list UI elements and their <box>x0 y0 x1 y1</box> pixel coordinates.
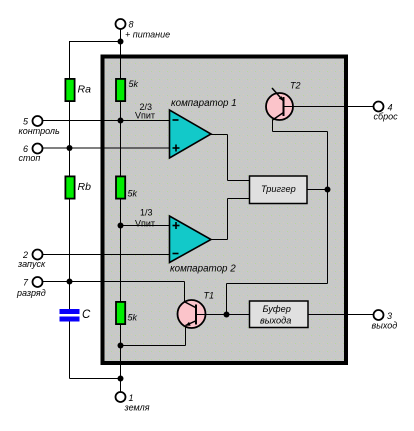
svg-text:1/3: 1/3 <box>140 208 153 218</box>
svg-text:T1: T1 <box>204 291 215 301</box>
svg-text:Триггер: Триггер <box>261 184 296 194</box>
svg-text:стоп: стоп <box>19 153 41 163</box>
svg-text:3: 3 <box>387 311 392 321</box>
svg-text:компаратор 1: компаратор 1 <box>171 98 237 109</box>
svg-text:Vпит: Vпит <box>135 111 155 121</box>
svg-text:T2: T2 <box>290 81 301 91</box>
svg-text:контроль: контроль <box>19 126 60 136</box>
svg-text:земля: земля <box>124 403 150 413</box>
svg-text:выхода: выхода <box>260 316 291 326</box>
svg-text:5k: 5k <box>128 313 138 323</box>
svg-text:Буфер: Буфер <box>263 304 291 314</box>
svg-text:5k: 5k <box>128 189 138 199</box>
svg-text:выход: выход <box>372 321 398 331</box>
svg-text:+ питание: + питание <box>125 30 170 40</box>
svg-text:запуск: запуск <box>17 259 46 269</box>
svg-text:разряд: разряд <box>16 288 46 298</box>
svg-text:C: C <box>82 309 91 321</box>
svg-text:Ra: Ra <box>78 84 92 96</box>
svg-text:сброс: сброс <box>374 112 399 122</box>
svg-text:компаратор 2: компаратор 2 <box>170 264 236 275</box>
svg-text:5k: 5k <box>129 79 139 89</box>
svg-text:Rb: Rb <box>78 181 92 193</box>
svg-text:1: 1 <box>129 393 134 403</box>
svg-text:8: 8 <box>129 20 134 30</box>
svg-text:Vпит: Vпит <box>135 219 155 229</box>
